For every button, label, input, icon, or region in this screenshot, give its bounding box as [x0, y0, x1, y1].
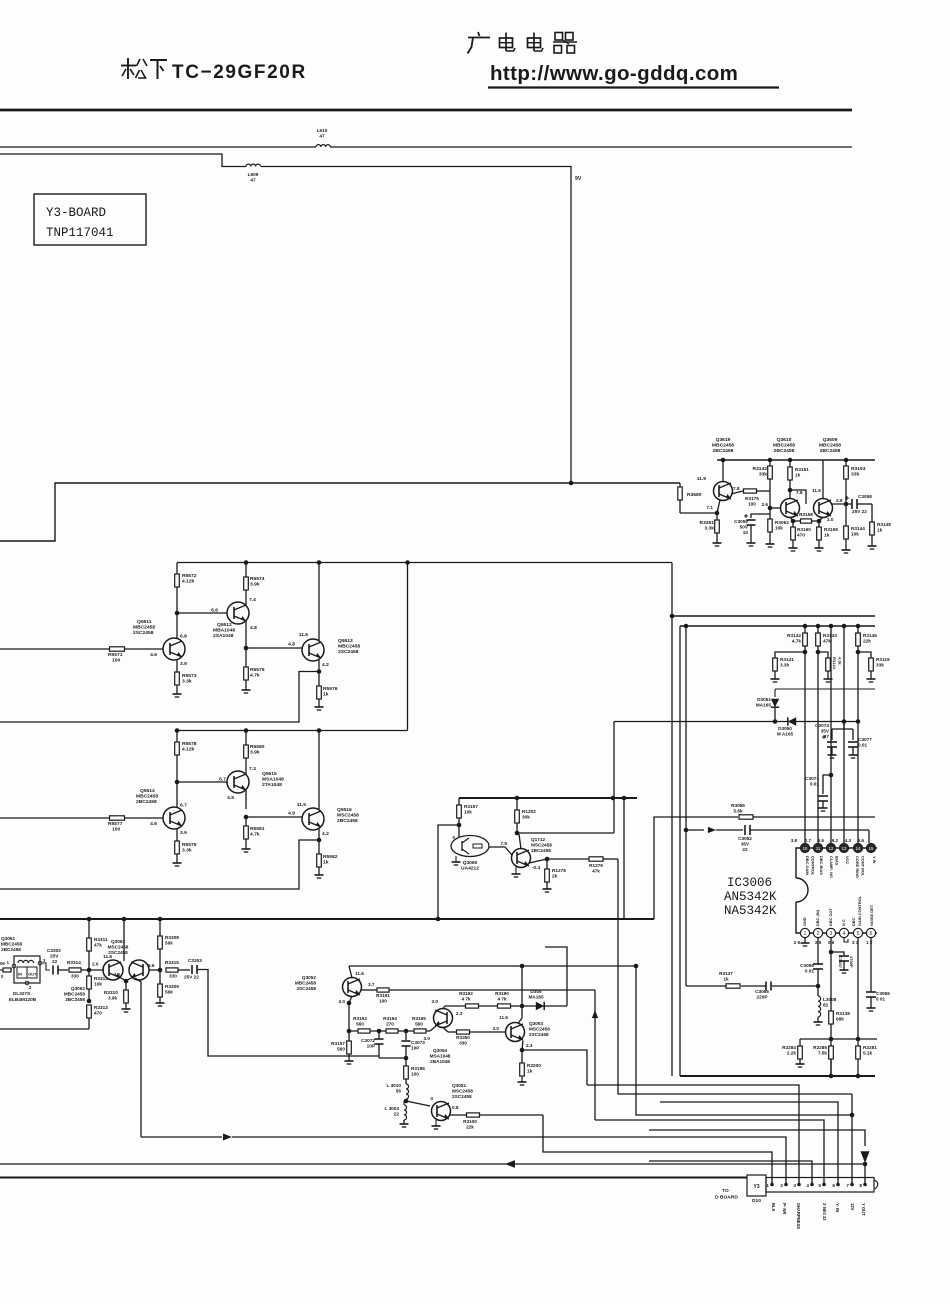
- transistor Q5512: [211, 597, 257, 648]
- svg-text:22: 22: [394, 1112, 400, 1117]
- svg-text:MBC2458: MBC2458: [295, 981, 316, 986]
- svg-text:Q3051: Q3051: [452, 1083, 466, 1088]
- svg-text:22: 22: [52, 959, 58, 964]
- ground below R3157: [345, 1061, 354, 1064]
- svg-text:MBC2458: MBC2458: [136, 794, 158, 800]
- capacitor C3073: [402, 1031, 426, 1058]
- svg-text:R3193: R3193: [353, 1016, 367, 1021]
- resistor R3306 input: [0, 961, 12, 979]
- svg-text:NA5342K: NA5342K: [724, 904, 777, 918]
- ground at IC pin 1: [801, 938, 810, 946]
- svg-text:4.0: 4.0: [113, 972, 120, 977]
- wire Q3609 base link: [790, 490, 806, 504]
- svg-text:47k: 47k: [823, 639, 831, 644]
- wire vertical x624 to bus: [623, 798, 625, 919]
- svg-text:3.0: 3.0: [338, 999, 345, 1004]
- inductor L3008: [818, 986, 837, 1022]
- svg-text:4.9: 4.9: [288, 811, 295, 817]
- diode D305: [528, 989, 544, 1010]
- ground below R3309: [156, 1003, 165, 1006]
- svg-text:11.6: 11.6: [355, 971, 364, 976]
- transistor Q3053: [492, 966, 550, 1048]
- svg-text:1k: 1k: [795, 473, 801, 478]
- svg-text:10k: 10k: [464, 810, 472, 815]
- svg-text:50V: 50V: [740, 525, 749, 530]
- svg-text:3.9k: 3.9k: [108, 996, 118, 1001]
- wire pin3 down: [829, 938, 834, 1011]
- inductor L3003: [384, 1101, 406, 1124]
- wire Q3619 base node: [680, 505, 719, 515]
- svg-text:AN5342K: AN5342K: [724, 890, 777, 904]
- wire vertical from step line down left of right block: [670, 563, 675, 1077]
- svg-text:L610: L610: [317, 128, 328, 133]
- svg-text:R3281: R3281: [863, 1045, 877, 1050]
- svg-text:11.6: 11.6: [299, 632, 309, 638]
- resistor R3160: [791, 521, 812, 548]
- svg-text:R3141: R3141: [780, 657, 794, 662]
- svg-text:R3351: R3351: [700, 520, 715, 526]
- svg-text:R3190: R3190: [495, 991, 509, 996]
- svg-text:1k: 1k: [527, 1069, 533, 1074]
- resistor R3197: [457, 798, 479, 837]
- ground below R3284: [796, 1064, 805, 1067]
- svg-text:560: 560: [356, 1022, 364, 1027]
- wire feeder y1137 from Q3063 with right arrow: [141, 1134, 786, 1185]
- junction dots on group2 rail: [175, 728, 322, 733]
- IC3006 bottom pin voltages: [794, 940, 873, 945]
- svg-text:R3191: R3191: [376, 993, 390, 998]
- ground below R3310: [122, 1009, 131, 1012]
- svg-text:Q3060: Q3060: [463, 860, 478, 866]
- svg-text:470: 470: [94, 1011, 102, 1016]
- ground below C3057: [840, 970, 849, 973]
- resistor R3159: [817, 521, 839, 548]
- svg-text:Q3054: Q3054: [433, 1048, 447, 1053]
- svg-text:C3052: C3052: [738, 836, 752, 841]
- IC3006 top pin 15: [866, 843, 875, 852]
- svg-text:0.8: 0.8: [452, 1105, 459, 1110]
- header Chinese text 广电电器: [468, 32, 578, 54]
- svg-text:2BC2458: 2BC2458: [136, 799, 157, 805]
- svg-text:3.0: 3.0: [492, 1026, 499, 1031]
- resistor R3161: [788, 467, 809, 480]
- wire D305 output up: [545, 947, 567, 1006]
- wire C3052 line with arrow: [686, 827, 743, 833]
- svg-text:7.5k: 7.5k: [818, 1051, 828, 1056]
- svg-text:25V: 25V: [50, 954, 59, 959]
- ground below R3062: [766, 544, 775, 547]
- svg-text:2.0: 2.0: [92, 962, 99, 967]
- ground below R3200: [518, 1082, 527, 1085]
- svg-text:Q5513: Q5513: [338, 638, 353, 644]
- svg-text:3: 3: [793, 1183, 796, 1188]
- svg-text:R5575: R5575: [250, 667, 265, 673]
- svg-text:2SC2458: 2SC2458: [296, 986, 316, 991]
- connector pin 8: [859, 1178, 866, 1189]
- resistor R1279: [547, 857, 618, 874]
- svg-text:R5580: R5580: [250, 744, 265, 750]
- svg-text:C3302: C3302: [47, 948, 61, 953]
- svg-text:7.4: 7.4: [249, 597, 256, 603]
- svg-text:C3059: C3059: [734, 519, 748, 524]
- wire feeder y1152 from R3100: [543, 1115, 772, 1184]
- node 9V label: [575, 176, 582, 182]
- ground below R3148: [868, 546, 877, 549]
- junction dots on top-right rail: [721, 458, 849, 463]
- svg-text:220P: 220P: [757, 995, 768, 1000]
- svg-text:Q5512: Q5512: [217, 622, 232, 628]
- node base of Q5512: [175, 611, 227, 616]
- svg-text:3.0: 3.0: [431, 999, 438, 1004]
- svg-text:4.9: 4.9: [227, 795, 234, 801]
- resistor R3157: [331, 1031, 351, 1061]
- resistor R3315: [165, 960, 190, 979]
- svg-text:R3309: R3309: [165, 984, 179, 989]
- svg-text:Q3609: Q3609: [823, 437, 838, 443]
- svg-text:R3146: R3146: [863, 633, 877, 638]
- wire stepped line from left to 9V node: [0, 154, 571, 482]
- svg-text:0 01: 0 01: [805, 969, 815, 974]
- svg-text:Q3062: Q3062: [71, 986, 85, 991]
- svg-text:GAIN CONTROL: GAIN CONTROL: [857, 895, 862, 926]
- transistor Q3610: [781, 460, 803, 518]
- svg-text:1k: 1k: [723, 977, 729, 982]
- svg-text:56k: 56k: [165, 941, 173, 946]
- svg-text:R3158: R3158: [799, 512, 813, 517]
- svg-text:100: 100: [112, 658, 120, 664]
- transistor Q3052: [295, 966, 375, 1004]
- svg-text:3.9k: 3.9k: [250, 582, 260, 588]
- svg-text:10k: 10k: [851, 532, 859, 537]
- NC hook at IC pin 4: [844, 938, 848, 942]
- resistor R3153: [844, 460, 866, 504]
- svg-text:BLK: BLK: [771, 1203, 776, 1212]
- wire VCC column to pin: [843, 626, 845, 843]
- ground below C3065: [867, 1008, 876, 1011]
- resistor R1202: [515, 798, 537, 833]
- svg-text:GND: GND: [802, 917, 807, 926]
- svg-text:Q3061: Q3061: [1, 936, 15, 941]
- svg-text:3 58/4 43: 3 58/4 43: [822, 1203, 827, 1221]
- svg-text:R5578: R5578: [182, 741, 197, 747]
- svg-text:MBC2458: MBC2458: [819, 443, 841, 449]
- svg-text:2BA1048: 2BA1048: [430, 1059, 450, 1064]
- svg-text:P- NR: P- NR: [782, 1203, 787, 1214]
- svg-text:R3284: R3284: [782, 1045, 796, 1050]
- svg-text:IN: IN: [18, 972, 22, 977]
- IC3006 top pin label CORE RING CONTROL: [855, 856, 866, 878]
- svg-text:R3197: R3197: [464, 804, 478, 809]
- svg-text:R5572: R5572: [182, 573, 197, 579]
- diode D3050: [777, 717, 796, 736]
- svg-text:4.7k: 4.7k: [792, 639, 802, 644]
- svg-text:2SC2458: 2SC2458: [338, 649, 359, 655]
- svg-text:ELB4M120B: ELB4M120B: [9, 997, 37, 1002]
- resistor R3313: [87, 1005, 109, 1029]
- svg-text:4.3: 4.3: [845, 838, 852, 843]
- IC3006 top pin 10: [800, 843, 809, 852]
- svg-text:MSA1048: MSA1048: [430, 1054, 451, 1059]
- svg-text:Y- IN: Y- IN: [835, 1203, 840, 1212]
- svg-text:CORE RING: CORE RING: [855, 856, 860, 878]
- wire Q5516 emitter feedback to left edge: [0, 840, 319, 889]
- resistor R5582: [317, 840, 338, 875]
- svg-text:1k: 1k: [824, 533, 830, 538]
- svg-text:MBC2458: MBC2458: [133, 625, 155, 631]
- svg-text:11.5: 11.5: [812, 488, 821, 493]
- svg-text:http://www.go-gddq.com: http://www.go-gddq.com: [490, 62, 738, 85]
- wire long line y1164 with left arrow: [0, 1160, 867, 1168]
- svg-text:R3313: R3313: [94, 1005, 108, 1010]
- wire feeder y1115 from x636: [636, 966, 852, 1115]
- svg-text:10k: 10k: [94, 982, 102, 987]
- svg-text:R3138: R3138: [836, 1011, 850, 1016]
- svg-text:L 3010: L 3010: [386, 1083, 401, 1088]
- resistor R3148: [870, 504, 892, 546]
- inductor L3010: [386, 1083, 408, 1101]
- connector pin 3: [793, 1178, 800, 1189]
- connector pin label 3.58 4.43: [822, 1203, 827, 1221]
- svg-text:Y3: Y3: [753, 1184, 759, 1190]
- node Q3053 emitter: [520, 1041, 525, 1053]
- inductor L609: [246, 164, 260, 182]
- svg-text:2.0: 2.0: [827, 517, 834, 522]
- svg-text:2SC2458: 2SC2458: [452, 1094, 472, 1099]
- svg-text:R1278: R1278: [552, 868, 566, 873]
- svg-text:C3072: C3072: [361, 1038, 375, 1043]
- node Q3063 emitters: [121, 978, 131, 990]
- svg-text:2.3: 2.3: [456, 1011, 463, 1016]
- svg-text:35V: 35V: [741, 842, 750, 847]
- svg-text:3.8: 3.8: [791, 838, 798, 843]
- capacitor C3302: [47, 948, 68, 975]
- resistor R5579: [175, 841, 197, 863]
- svg-text:R3143: R3143: [823, 633, 837, 638]
- connector pin 7: [846, 1178, 853, 1189]
- node Q5512 emitter to Q5513 base: [244, 642, 303, 651]
- wire feeder y1094 to pin7 column: [618, 859, 852, 1094]
- capacitor C3055: [741, 982, 818, 1000]
- connector D10 body: [766, 1178, 878, 1193]
- svg-text:3.7: 3.7: [368, 982, 375, 987]
- IC3006 bottom pin label DBC IN: [815, 909, 820, 926]
- svg-text:R3159: R3159: [824, 527, 838, 532]
- transistor Q3051: [430, 1083, 473, 1121]
- ground below R3159: [815, 548, 824, 551]
- svg-text:47: 47: [319, 134, 325, 139]
- wire vertical second column: [679, 626, 681, 1076]
- IC IC3006 AN5342K NA5342K label: [724, 876, 777, 918]
- node Q1712 emitter: [529, 857, 549, 863]
- svg-text:4.8: 4.8: [250, 625, 257, 631]
- svg-text:2BC2458: 2BC2458: [337, 818, 358, 824]
- ground below C3074: [828, 755, 837, 758]
- svg-text:6: 6: [832, 1183, 835, 1188]
- svg-text:12: 12: [829, 846, 834, 851]
- svg-text:5.6: 5.6: [818, 838, 825, 843]
- resistor R3138: [829, 1011, 851, 1076]
- resistor R3281: [856, 1039, 878, 1076]
- transistor Q5516: [297, 731, 359, 841]
- svg-text:5.6: 5.6: [858, 838, 865, 843]
- wire Q3052 base line vertical with up arrow: [592, 990, 598, 1120]
- capacitor C3303: [184, 958, 379, 1056]
- svg-text:330: 330: [169, 974, 177, 979]
- resistor R3191: [361, 988, 595, 1004]
- resistor R5580: [244, 731, 265, 772]
- svg-text:R3315: R3315: [165, 960, 179, 965]
- diode D3051: [756, 697, 779, 722]
- svg-text:Q3610: Q3610: [777, 437, 792, 443]
- IC3006 bottom pin label DBC OUT: [828, 908, 833, 926]
- node R3158 right: [817, 519, 822, 524]
- connector pin 1: [766, 1178, 773, 1189]
- svg-text:22: 22: [742, 847, 748, 852]
- ground below R5575: [242, 690, 251, 693]
- svg-text:DBC GAIN: DBC GAIN: [805, 856, 810, 875]
- svg-text:2BC2458: 2BC2458: [820, 448, 841, 454]
- svg-text:4.3k: 4.3k: [838, 657, 843, 666]
- svg-text:MSA1048: MSA1048: [262, 777, 284, 783]
- svg-text:4.2: 4.2: [322, 662, 329, 668]
- ground below C3071: [819, 808, 828, 811]
- svg-text:6.8: 6.8: [180, 634, 187, 640]
- svg-text:4: 4: [843, 931, 846, 937]
- svg-text:11.9: 11.9: [697, 476, 707, 482]
- wire DL327S output: [42, 963, 50, 970]
- capacitor C3056: [800, 963, 823, 986]
- svg-text:C3074: C3074: [815, 723, 829, 728]
- svg-text:25V 22: 25V 22: [852, 509, 867, 514]
- resistor R3143: [816, 626, 838, 843]
- svg-text:13: 13: [842, 846, 847, 851]
- svg-text:4 7k: 4 7k: [497, 997, 507, 1002]
- delay line DL327S: [7, 956, 46, 1002]
- svg-text:R3065: R3065: [731, 803, 745, 808]
- wire Q3060 to Q1712 base: [489, 847, 512, 855]
- svg-text:R3200: R3200: [527, 1063, 541, 1068]
- svg-text:4.6: 4.6: [150, 652, 157, 658]
- svg-text:4.12k: 4.12k: [182, 747, 195, 753]
- svg-text:10P: 10P: [367, 1044, 375, 1049]
- transistor Q3054: [423, 1006, 462, 1064]
- svg-text:M A165: M A165: [777, 732, 794, 737]
- wire group1 supply rail: [177, 562, 672, 564]
- svg-text:R3310: R3310: [104, 990, 118, 995]
- svg-text:2.6: 2.6: [836, 498, 843, 503]
- svg-text:5: 5: [818, 1183, 821, 1188]
- svg-text:Q5516: Q5516: [337, 807, 352, 813]
- IC3006 top pin label VCC: [845, 856, 850, 864]
- svg-text:MBC2458: MBC2458: [773, 443, 795, 449]
- node Q5513 emitter: [317, 669, 322, 674]
- capacitor C3052: [738, 825, 869, 852]
- svg-text:Q5515: Q5515: [262, 771, 277, 777]
- IC3006 top pin 11: [813, 843, 822, 852]
- svg-text:R5579: R5579: [182, 842, 197, 848]
- connector label TO D BOARD: [715, 1188, 761, 1204]
- svg-text:100: 100: [379, 999, 387, 1004]
- svg-text:2.2k: 2.2k: [787, 1051, 797, 1056]
- svg-text:270: 270: [386, 1022, 394, 1027]
- svg-text:0.01: 0.01: [810, 782, 820, 787]
- wire vertical third column: [684, 624, 689, 986]
- wire caps common node: [379, 1056, 408, 1061]
- wire bottom thick line of IC block: [680, 1074, 875, 1079]
- svg-text:4.8: 4.8: [288, 642, 295, 648]
- resistor R3119: [858, 652, 890, 679]
- resistor R3310: [104, 990, 128, 1009]
- svg-text:R3142: R3142: [753, 466, 768, 472]
- svg-text:R3100: R3100: [463, 1119, 477, 1124]
- node Q5515 emitter to Q5516 base: [244, 811, 303, 820]
- resistor R5572: [175, 563, 197, 614]
- svg-text:R3350: R3350: [456, 1035, 470, 1040]
- resistor R3144b: [818, 652, 843, 679]
- svg-text:MBC2458: MBC2458: [1, 942, 22, 947]
- svg-text:4: 4: [806, 1183, 809, 1188]
- svg-text:4700P: 4700P: [849, 956, 854, 968]
- transistor Q5511: [133, 613, 187, 672]
- IC3006 bottom pin 5: [853, 928, 862, 937]
- node L3010 bottom: [404, 1099, 430, 1106]
- ground below C3077: [849, 755, 858, 758]
- wire horizontal above D3051: [775, 689, 875, 697]
- resistor R3196: [404, 1058, 426, 1084]
- svg-text:7.8: 7.8: [733, 486, 740, 491]
- wire Q3063 emitter feeder down: [135, 978, 141, 1137]
- svg-text:MA165: MA165: [756, 703, 772, 708]
- svg-text:R5576: R5576: [323, 686, 338, 692]
- wire mid-right rail 2: [680, 625, 875, 627]
- svg-text:Q3052: Q3052: [302, 975, 316, 980]
- node Q3052 emitter: [347, 996, 352, 1031]
- resistor R5575: [244, 648, 265, 690]
- svg-text:Q5514: Q5514: [140, 788, 155, 794]
- IC3006 body outline with notch: [796, 848, 877, 933]
- svg-text:CONTROL: CONTROL: [811, 856, 816, 876]
- resistor R5581: [244, 817, 265, 849]
- svg-text:100: 100: [411, 1072, 419, 1077]
- svg-text:10k: 10k: [775, 526, 783, 531]
- svg-text:MSC2458: MSC2458: [108, 945, 129, 950]
- svg-text:R5577: R5577: [108, 821, 123, 827]
- svg-text:3.9k: 3.9k: [250, 750, 260, 756]
- svg-text:10P: 10P: [411, 1046, 419, 1051]
- resistor R3680: [678, 483, 702, 513]
- svg-text:Q5511: Q5511: [137, 619, 152, 625]
- wire pin6 down: [870, 938, 872, 992]
- wire Q5513 emitter feedback to left edge: [0, 672, 319, 723]
- svg-text:DL327S: DL327S: [13, 991, 30, 996]
- svg-text:R3142: R3142: [787, 633, 801, 638]
- svg-text:2BC2458: 2BC2458: [531, 848, 551, 853]
- svg-text:C3077: C3077: [858, 737, 872, 742]
- svg-text:11.6: 11.6: [103, 954, 112, 959]
- svg-text:3.3k: 3.3k: [182, 679, 192, 685]
- wire mid-right rail 1: [672, 615, 875, 617]
- svg-text:1 2: 1 2: [866, 940, 873, 945]
- ground below R3351: [713, 543, 722, 546]
- svg-text:R5582: R5582: [323, 854, 338, 860]
- svg-text:TNP117041: TNP117041: [46, 226, 114, 240]
- node below R3312: [87, 999, 92, 1004]
- IC3006 bottom pin label NOISE DET: [869, 904, 874, 926]
- wire CLAMP column to pin: [829, 624, 834, 843]
- IC3006 top pin label CLAMP-ING BIAS: [829, 856, 840, 878]
- transistor Q3619: [697, 460, 740, 513]
- svg-text:4.7k: 4.7k: [250, 832, 260, 838]
